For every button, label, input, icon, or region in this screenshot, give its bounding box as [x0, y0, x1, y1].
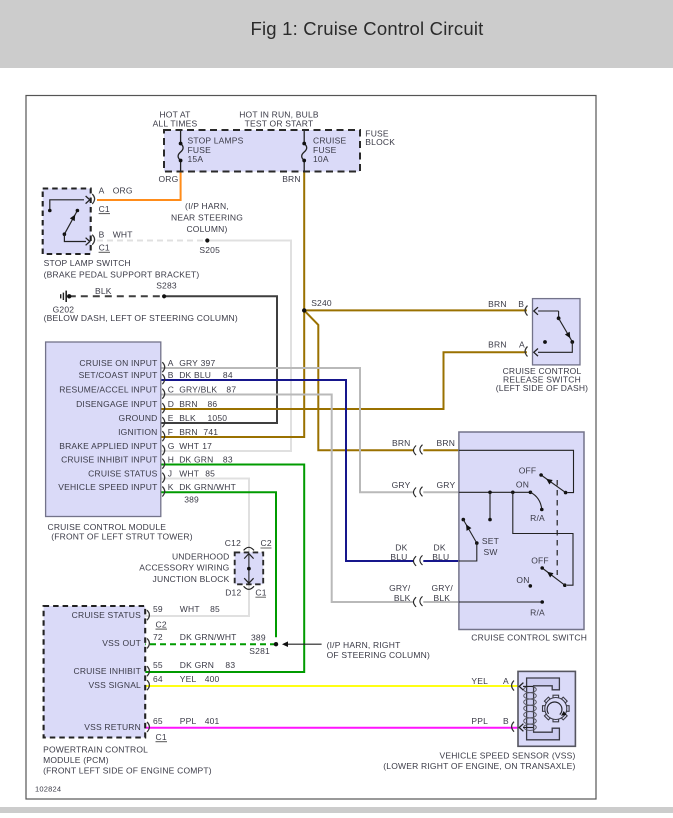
- svg-text:1050: 1050: [208, 413, 228, 423]
- svg-text:389: 389: [184, 495, 199, 505]
- svg-text:83: 83: [223, 454, 233, 464]
- svg-text:B: B: [503, 716, 509, 726]
- svg-text:STOP LAMP SWITCH: STOP LAMP SWITCH: [44, 258, 131, 268]
- svg-text:JUNCTION BLOCK: JUNCTION BLOCK: [153, 574, 230, 584]
- svg-text:389: 389: [251, 633, 266, 643]
- svg-text:H: H: [168, 454, 174, 464]
- svg-text:S281: S281: [249, 646, 270, 656]
- svg-text:SET/COAST INPUT: SET/COAST INPUT: [79, 370, 158, 380]
- svg-text:CRUISE ON INPUT: CRUISE ON INPUT: [79, 358, 157, 368]
- svg-text:10A: 10A: [313, 154, 329, 164]
- svg-text:TEST OR START: TEST OR START: [245, 118, 314, 128]
- svg-text:A: A: [168, 358, 174, 368]
- svg-text:J: J: [168, 468, 172, 478]
- svg-text:ON: ON: [516, 480, 529, 490]
- svg-text:R/A: R/A: [530, 608, 545, 618]
- svg-text:BLOCK: BLOCK: [365, 137, 395, 147]
- svg-text:CRUISE STATUS: CRUISE STATUS: [88, 468, 157, 478]
- svg-text:64: 64: [153, 674, 163, 684]
- svg-text:BLK: BLK: [179, 413, 196, 423]
- svg-text:C12: C12: [225, 538, 241, 548]
- svg-text:RESUME/ACCEL INPUT: RESUME/ACCEL INPUT: [59, 384, 157, 394]
- svg-text:87: 87: [226, 384, 236, 394]
- svg-text:65: 65: [153, 716, 163, 726]
- svg-text:D12: D12: [225, 588, 241, 598]
- svg-text:GRY/: GRY/: [389, 583, 411, 593]
- svg-text:BRN: BRN: [392, 438, 411, 448]
- svg-text:84: 84: [223, 370, 233, 380]
- svg-text:86: 86: [208, 399, 218, 409]
- svg-text:A: A: [503, 676, 509, 686]
- svg-text:C1: C1: [156, 732, 167, 742]
- svg-text:GRY: GRY: [392, 480, 411, 490]
- svg-text:GRY: GRY: [437, 480, 456, 490]
- svg-text:C2: C2: [261, 538, 272, 548]
- svg-text:A: A: [519, 340, 525, 350]
- svg-text:401: 401: [205, 716, 220, 726]
- svg-text:400: 400: [205, 674, 220, 684]
- svg-text:ACCESSORY WIRING: ACCESSORY WIRING: [139, 563, 229, 573]
- svg-text:IGNITION: IGNITION: [118, 427, 157, 437]
- svg-text:(FRONT LEFT SIDE OF ENGINE COM: (FRONT LEFT SIDE OF ENGINE COMPT): [43, 766, 212, 776]
- svg-text:BLU: BLU: [432, 552, 449, 562]
- svg-text:55: 55: [153, 660, 163, 670]
- svg-text:COLUMN): COLUMN): [186, 224, 227, 234]
- svg-text:DK: DK: [434, 543, 446, 553]
- svg-text:YEL: YEL: [180, 674, 197, 684]
- svg-text:ALL TIMES: ALL TIMES: [153, 118, 198, 128]
- svg-text:(FRONT OF LEFT STRUT TOWER): (FRONT OF LEFT STRUT TOWER): [51, 532, 193, 542]
- svg-text:(I/P HARN,: (I/P HARN,: [185, 201, 229, 211]
- svg-text:15A: 15A: [188, 154, 204, 164]
- svg-text:CRUISE: CRUISE: [313, 135, 346, 145]
- svg-text:ON: ON: [516, 575, 529, 585]
- svg-text:Fig 1: Cruise Control Circuit: Fig 1: Cruise Control Circuit: [250, 18, 483, 39]
- svg-text:(LOWER RIGHT OF ENGINE, ON TRA: (LOWER RIGHT OF ENGINE, ON TRANSAXLE): [383, 761, 575, 771]
- svg-text:D: D: [168, 399, 174, 409]
- svg-text:A: A: [99, 186, 105, 196]
- svg-text:GRY/: GRY/: [432, 583, 454, 593]
- svg-text:VEHICLE SPEED INPUT: VEHICLE SPEED INPUT: [58, 482, 157, 492]
- svg-text:K: K: [168, 482, 174, 492]
- svg-text:C1: C1: [255, 588, 266, 598]
- svg-text:72: 72: [153, 632, 163, 642]
- svg-text:59: 59: [153, 604, 163, 614]
- svg-text:DISENGAGE INPUT: DISENGAGE INPUT: [76, 399, 157, 409]
- svg-text:R/A: R/A: [530, 513, 545, 523]
- svg-text:102824: 102824: [35, 785, 61, 794]
- svg-text:DK GRN: DK GRN: [180, 660, 214, 670]
- svg-text:GROUND: GROUND: [119, 413, 158, 423]
- svg-text:SW: SW: [483, 547, 497, 557]
- svg-text:17: 17: [202, 441, 212, 451]
- svg-text:S240: S240: [311, 298, 332, 308]
- svg-text:DK GRN/WHT: DK GRN/WHT: [180, 632, 237, 642]
- svg-text:PPL: PPL: [180, 716, 197, 726]
- svg-text:(I/P HARN, RIGHT: (I/P HARN, RIGHT: [327, 640, 401, 650]
- svg-text:S205: S205: [199, 245, 220, 255]
- svg-text:DK: DK: [395, 543, 407, 553]
- svg-text:85: 85: [210, 604, 220, 614]
- svg-text:WHT: WHT: [113, 229, 133, 239]
- svg-text:397: 397: [201, 358, 216, 368]
- svg-text:C2: C2: [156, 619, 167, 629]
- svg-text:VSS OUT: VSS OUT: [102, 638, 141, 648]
- svg-text:DK GRN: DK GRN: [179, 454, 213, 464]
- svg-text:BRN: BRN: [179, 399, 198, 409]
- svg-text:BLK: BLK: [95, 286, 112, 296]
- svg-text:(LEFT SIDE OF DASH): (LEFT SIDE OF DASH): [496, 383, 588, 393]
- svg-text:(BRAKE PEDAL SUPPORT BRACKET): (BRAKE PEDAL SUPPORT BRACKET): [44, 270, 200, 280]
- svg-text:OF STEERING COLUMN): OF STEERING COLUMN): [327, 650, 430, 660]
- svg-text:GRY: GRY: [179, 358, 198, 368]
- svg-text:BRN: BRN: [282, 174, 301, 184]
- svg-text:F: F: [168, 427, 173, 437]
- svg-text:VSS RETURN: VSS RETURN: [84, 722, 141, 732]
- svg-text:BLK: BLK: [434, 593, 451, 603]
- svg-text:DK GRN/WHT: DK GRN/WHT: [179, 482, 236, 492]
- svg-text:B: B: [99, 229, 105, 239]
- svg-text:BLK: BLK: [394, 593, 411, 603]
- svg-text:NEAR STEERING: NEAR STEERING: [171, 213, 243, 223]
- svg-text:BRAKE APPLIED INPUT: BRAKE APPLIED INPUT: [59, 441, 157, 451]
- svg-text:CRUISE STATUS: CRUISE STATUS: [72, 610, 141, 620]
- svg-text:CRUISE CONTROL MODULE: CRUISE CONTROL MODULE: [48, 522, 167, 532]
- svg-text:741: 741: [203, 427, 218, 437]
- svg-text:C: C: [168, 384, 174, 394]
- svg-text:YEL: YEL: [471, 676, 488, 686]
- svg-text:BRN: BRN: [179, 427, 198, 437]
- svg-text:POWERTRAIN CONTROL: POWERTRAIN CONTROL: [43, 745, 148, 755]
- svg-text:CRUISE INHIBIT INPUT: CRUISE INHIBIT INPUT: [61, 454, 157, 464]
- svg-text:WHT: WHT: [179, 468, 199, 478]
- svg-text:BRN: BRN: [488, 299, 507, 309]
- svg-text:E: E: [168, 413, 174, 423]
- svg-text:G: G: [168, 441, 175, 451]
- svg-text:GRY/BLK: GRY/BLK: [179, 384, 217, 394]
- svg-text:S283: S283: [156, 281, 177, 291]
- svg-text:CRUISE CONTROL SWITCH: CRUISE CONTROL SWITCH: [471, 633, 587, 643]
- svg-text:STOP LAMPS: STOP LAMPS: [188, 135, 244, 145]
- svg-text:UNDERHOOD: UNDERHOOD: [172, 552, 230, 562]
- svg-text:C1: C1: [99, 243, 110, 253]
- svg-text:BRN: BRN: [437, 438, 456, 448]
- svg-text:(BELOW DASH, LEFT OF STEERING: (BELOW DASH, LEFT OF STEERING COLUMN): [44, 313, 238, 323]
- svg-text:OFF: OFF: [519, 465, 537, 475]
- svg-text:B: B: [518, 299, 524, 309]
- svg-text:BRN: BRN: [488, 340, 507, 350]
- svg-text:ORG: ORG: [113, 186, 133, 196]
- svg-text:C1: C1: [99, 204, 110, 214]
- svg-text:BLU: BLU: [390, 552, 407, 562]
- svg-text:VEHICLE SPEED SENSOR (VSS): VEHICLE SPEED SENSOR (VSS): [439, 751, 575, 761]
- svg-text:MODULE (PCM): MODULE (PCM): [43, 755, 109, 765]
- svg-text:83: 83: [225, 660, 235, 670]
- svg-text:OFF: OFF: [531, 555, 549, 565]
- svg-text:WHT: WHT: [179, 441, 199, 451]
- svg-text:SET: SET: [482, 536, 499, 546]
- svg-text:CRUISE INHIBIT: CRUISE INHIBIT: [73, 666, 141, 676]
- svg-text:WHT: WHT: [180, 604, 200, 614]
- svg-text:85: 85: [205, 468, 215, 478]
- svg-text:ORG: ORG: [159, 174, 179, 184]
- svg-text:VSS SIGNAL: VSS SIGNAL: [88, 680, 141, 690]
- svg-text:DK BLU: DK BLU: [179, 370, 211, 380]
- svg-text:PPL: PPL: [471, 716, 488, 726]
- svg-text:B: B: [168, 370, 174, 380]
